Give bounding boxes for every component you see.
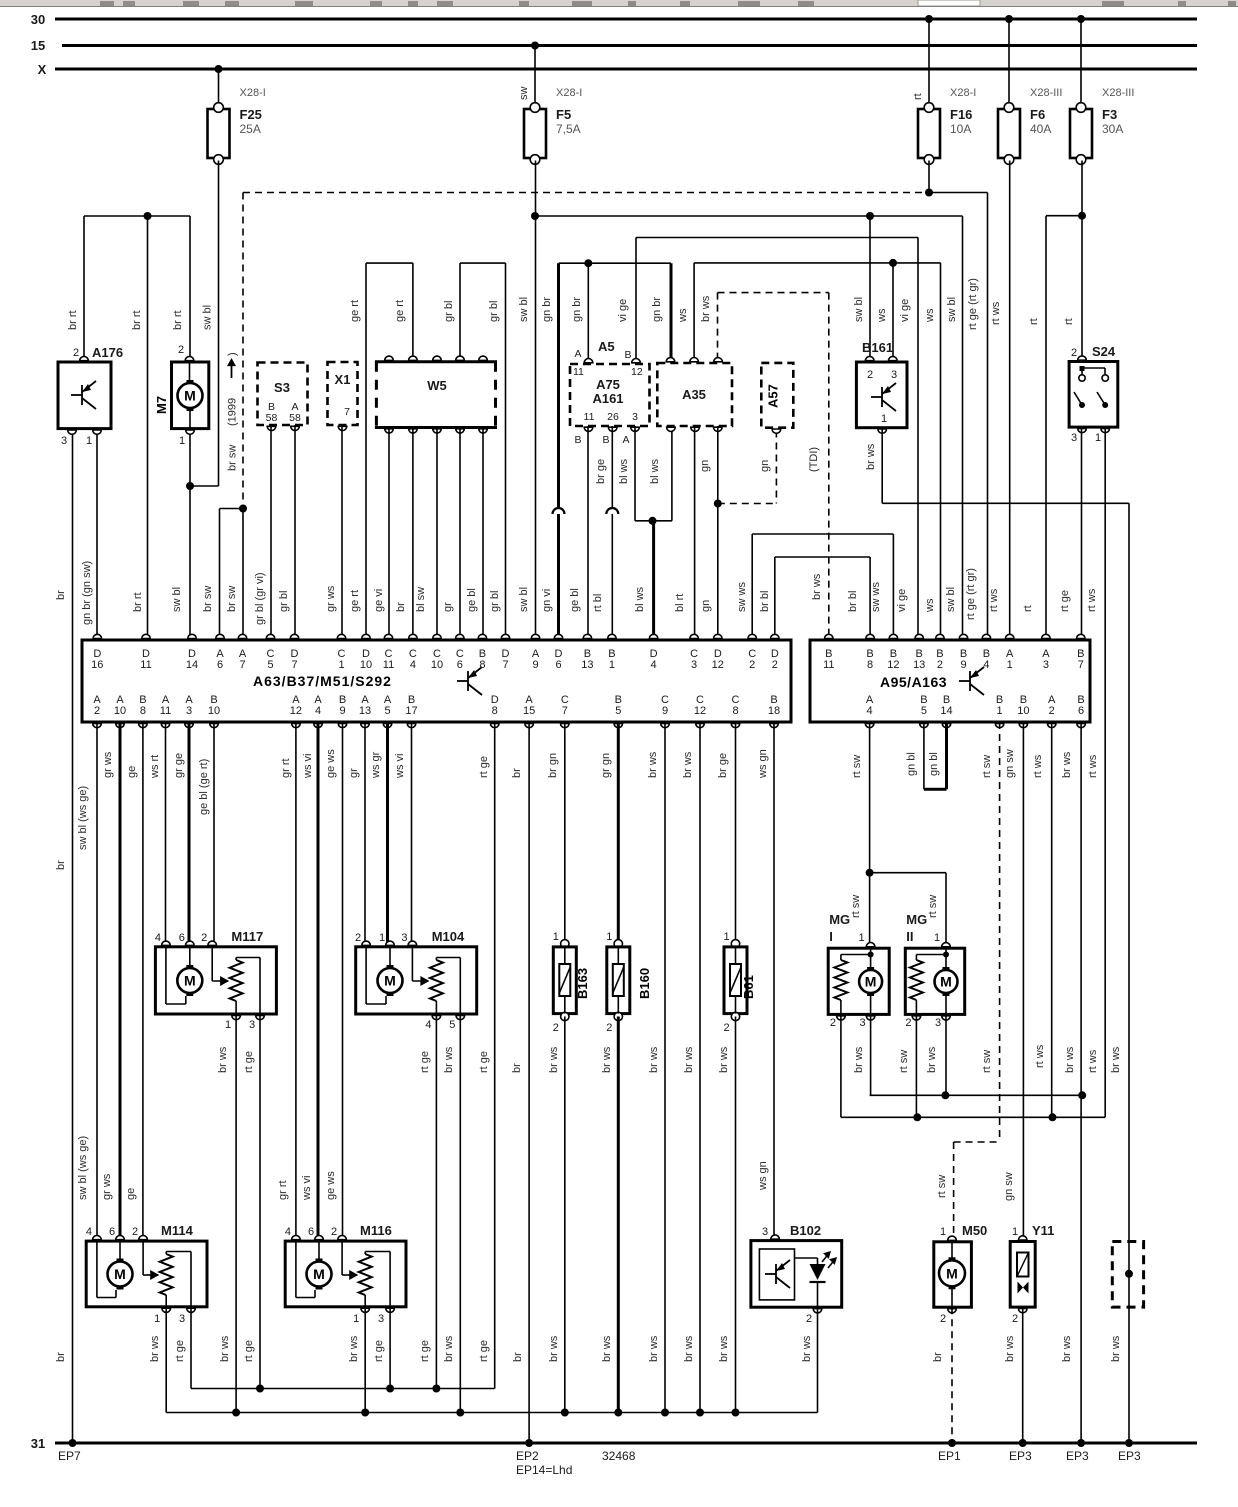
- junction B161 pin2 wire: [866, 212, 874, 220]
- wire B160 down: [617, 1017, 620, 1413]
- junction br ws: [361, 1409, 369, 1417]
- wire F25 down: [218, 161, 220, 487]
- svg-text:A176: A176: [92, 345, 123, 360]
- svg-text:58: 58: [266, 412, 278, 424]
- svg-text:br ws: br ws: [801, 1335, 813, 1362]
- svg-text:br bl: br bl: [847, 591, 859, 612]
- svg-text:rt ge: rt ge: [478, 1340, 490, 1362]
- junction F3: [1078, 212, 1086, 220]
- bus line 15: [62, 44, 1197, 47]
- svg-text:7: 7: [562, 705, 568, 717]
- svg-text:sw bl (ws ge): sw bl (ws ge): [77, 1136, 89, 1200]
- svg-text:6: 6: [457, 659, 463, 671]
- svg-text:rt sw: rt sw: [936, 1175, 948, 1198]
- wire S24 pin1 down: [1104, 427, 1106, 1117]
- sensor B61: [731, 940, 739, 948]
- svg-text:gr rt: gr rt: [277, 1180, 289, 1200]
- wire M116.1 down: [364, 1307, 366, 1413]
- wire C12 down: [699, 722, 701, 1413]
- svg-text:2: 2: [73, 347, 79, 359]
- junction M7 pin1: [186, 482, 194, 490]
- junction D11: [144, 212, 152, 220]
- wire A4R to MG I: [869, 722, 871, 945]
- junction br ws: [232, 1409, 240, 1417]
- svg-text:br rt: br rt: [132, 592, 144, 612]
- svg-text:3: 3: [61, 435, 67, 447]
- svg-text:sw bl: sw bl: [171, 587, 183, 612]
- svg-text:11: 11: [584, 411, 595, 423]
- svg-text:4: 4: [425, 1019, 431, 1031]
- svg-text:12: 12: [631, 366, 643, 378]
- svg-text:3: 3: [378, 1313, 384, 1325]
- svg-text:12: 12: [290, 705, 302, 717]
- svg-text:rt: rt: [912, 93, 924, 100]
- svg-text:EP1: EP1: [938, 1449, 961, 1463]
- svg-text:br: br: [511, 768, 523, 778]
- svg-text:gr bl: gr bl: [489, 591, 501, 612]
- svg-text:M117: M117: [231, 929, 263, 944]
- wire M104.5 down: [459, 1014, 461, 1413]
- svg-text:3: 3: [1043, 659, 1049, 671]
- svg-text:EP2: EP2: [516, 1449, 539, 1463]
- bus br ws sensor ground: [166, 1412, 817, 1414]
- control unit connector A95/A163: [810, 640, 1090, 722]
- svg-text:16: 16: [91, 659, 103, 671]
- svg-text:gn sw: gn sw: [1003, 1172, 1015, 1201]
- dashed wire A57 run: [775, 431, 777, 504]
- wire from bus to fuse F25: [218, 69, 220, 107]
- svg-text:gr bl: gr bl: [488, 301, 500, 322]
- svg-text:gr ws: gr ws: [101, 1173, 113, 1200]
- junction rt ge M104.4: [432, 1385, 440, 1393]
- svg-text:M50: M50: [962, 1223, 987, 1238]
- svg-text:A75: A75: [596, 377, 620, 392]
- svg-text:M114: M114: [161, 1223, 194, 1238]
- svg-text:X28-III: X28-III: [1030, 87, 1062, 99]
- svg-text:M: M: [313, 1266, 325, 1282]
- wire C8 to B61: [735, 722, 737, 944]
- svg-text:br: br: [395, 602, 407, 612]
- svg-text:3: 3: [1071, 432, 1077, 444]
- svg-text:A161: A161: [592, 391, 623, 406]
- svg-text:): ): [227, 352, 239, 356]
- svg-text:ws: ws: [924, 308, 936, 323]
- bus line 30: [55, 18, 1197, 20]
- wire B5 to B160 bold: [617, 722, 620, 944]
- svg-text:2: 2: [830, 1017, 836, 1029]
- wire D14 down: [189, 486, 191, 640]
- svg-text:br ws: br ws: [683, 1046, 695, 1073]
- svg-text:br ws: br ws: [718, 1046, 730, 1073]
- svg-text:br sw: br sw: [226, 586, 238, 612]
- junction inside dashed box: [1125, 1270, 1133, 1278]
- svg-text:11: 11: [160, 705, 171, 717]
- junction line A MGII3: [941, 1091, 949, 1099]
- fuse F25: [208, 109, 230, 158]
- svg-text:br ge: br ge: [595, 459, 607, 484]
- svg-text:ge bl (ge rt): ge bl (ge rt): [198, 759, 210, 815]
- control unit connector A63/B37/M51/S292: [82, 640, 791, 722]
- svg-text:rt: rt: [1028, 318, 1040, 325]
- svg-text:ge: ge: [125, 1188, 137, 1200]
- svg-text:10: 10: [114, 705, 126, 717]
- svg-text:25A: 25A: [240, 122, 261, 136]
- wire A4 to M116.6 bold: [317, 722, 320, 1238]
- arrow 1999 up: [231, 364, 233, 378]
- svg-text:rt ge: rt ge: [419, 1340, 431, 1362]
- svg-text:br ws: br ws: [219, 1335, 231, 1362]
- svg-text:ge bl: ge bl: [569, 588, 581, 612]
- svg-text:ws gn: ws gn: [757, 749, 769, 779]
- junction br ws: [732, 1409, 740, 1417]
- svg-text:B: B: [624, 349, 631, 361]
- svg-text:3: 3: [186, 705, 192, 717]
- svg-text:S3: S3: [274, 380, 290, 395]
- svg-text:B163: B163: [575, 968, 590, 999]
- svg-text:Y11: Y11: [1032, 1223, 1054, 1238]
- svg-text:gn sw: gn sw: [1004, 749, 1016, 778]
- svg-text:4: 4: [867, 705, 873, 717]
- connector S3: [258, 363, 308, 426]
- svg-text:sw bl: sw bl: [945, 587, 957, 612]
- svg-text:ge ws: ge ws: [325, 1171, 337, 1200]
- svg-text:2: 2: [606, 1022, 612, 1034]
- wire to B161 pin2: [869, 216, 871, 359]
- svg-text:B: B: [602, 434, 609, 446]
- junction D4: [649, 517, 657, 525]
- wire F5/A9 down: [535, 161, 537, 641]
- wire M116.3 down: [389, 1307, 391, 1389]
- svg-text:br ws: br ws: [601, 1046, 613, 1073]
- svg-text:gr bl (gr vi): gr bl (gr vi): [254, 572, 266, 625]
- svg-text:A: A: [574, 348, 581, 360]
- svg-text:6: 6: [1078, 705, 1084, 717]
- svg-text:1: 1: [1012, 1226, 1018, 1238]
- splice hook on D6 wire: [553, 508, 565, 514]
- svg-text:rt ws: rt ws: [1087, 1049, 1099, 1073]
- actuator motor M116: [285, 1241, 406, 1307]
- svg-text:br ws: br ws: [700, 295, 712, 322]
- wire B9 to M116.2: [342, 722, 344, 1238]
- svg-text:br: br: [932, 1352, 944, 1362]
- component M7 motor: [172, 362, 209, 429]
- svg-text:26: 26: [607, 411, 619, 423]
- svg-text:gr ws: gr ws: [102, 751, 114, 778]
- svg-text:br sw: br sw: [227, 445, 239, 471]
- svg-text:ws vi: ws vi: [394, 754, 406, 779]
- svg-text:M: M: [184, 973, 196, 989]
- svg-text:rt ws: rt ws: [1086, 588, 1098, 612]
- svg-text:10: 10: [1017, 705, 1029, 717]
- svg-text:gn: gn: [759, 460, 771, 472]
- svg-text:4: 4: [983, 659, 989, 671]
- wire W5 bracket right: [460, 262, 506, 264]
- svg-text:2: 2: [1071, 347, 1077, 359]
- svg-text:gr bl: gr bl: [278, 591, 290, 612]
- svg-text:sw bl: sw bl: [946, 297, 958, 322]
- svg-text:br ws: br ws: [648, 1046, 660, 1073]
- wire B6 to EP3: [1080, 722, 1082, 1443]
- svg-text:1: 1: [553, 931, 559, 943]
- junction line A B6: [1078, 1091, 1086, 1099]
- wire MG I.2 down: [840, 1014, 842, 1117]
- svg-text:2: 2: [1012, 1313, 1018, 1325]
- wire B17 to M104.3: [411, 722, 413, 945]
- wire A35 pin1b down: [671, 429, 673, 521]
- terminal EP3 a: [1019, 1439, 1027, 1447]
- svg-text:10: 10: [208, 705, 220, 717]
- wire A15 to EP2: [528, 722, 530, 1443]
- junction br ws: [561, 1409, 569, 1417]
- svg-text:bl rt: bl rt: [674, 594, 686, 612]
- svg-text:A5: A5: [598, 339, 615, 354]
- svg-text:9: 9: [532, 659, 538, 671]
- svg-text:M: M: [184, 388, 196, 404]
- wire M7 pin1: [189, 430, 191, 486]
- svg-text:EP3: EP3: [1009, 1449, 1032, 1463]
- svg-text:4: 4: [315, 705, 321, 717]
- actuator motor M117: [155, 947, 276, 1014]
- connector X1: [328, 362, 358, 425]
- svg-text:rt ge: rt ge: [174, 1340, 186, 1362]
- svg-text:br ws: br ws: [683, 1335, 695, 1362]
- dashed wire br sw 1999 horizontal: [243, 192, 929, 194]
- svg-text:gn: gn: [700, 600, 712, 612]
- junction br sw to A6/A7: [239, 505, 247, 513]
- svg-text:gn br: gn br: [651, 297, 663, 322]
- wire C7 to B163: [564, 722, 566, 944]
- M117 internals: [189, 947, 191, 965]
- svg-text:EP14=Lhd: EP14=Lhd: [516, 1463, 572, 1477]
- svg-text:br ge: br ge: [717, 753, 729, 778]
- svg-text:3: 3: [632, 411, 638, 423]
- svg-text:3: 3: [401, 932, 407, 944]
- dashed wire A35 pin3 up: [717, 293, 719, 361]
- svg-text:br ws: br ws: [811, 573, 823, 600]
- svg-text:2: 2: [806, 1313, 812, 1325]
- svg-text:7: 7: [1078, 659, 1084, 671]
- svg-text:gr: gr: [442, 602, 454, 612]
- svg-text:br ws: br ws: [926, 1046, 938, 1073]
- splice hook on B1 wire: [606, 508, 618, 514]
- svg-text:10A: 10A: [950, 122, 971, 136]
- wire A75 p3 to bar: [634, 426, 636, 521]
- svg-text:br rt: br rt: [131, 310, 143, 330]
- svg-text:1: 1: [859, 932, 865, 944]
- svg-text:M: M: [114, 1266, 126, 1282]
- junction A75 pin11: [584, 259, 592, 267]
- component A75/A161: [570, 364, 650, 426]
- wire F16 to B4 corner: [929, 192, 988, 194]
- terminal EP1: [948, 1439, 956, 1447]
- svg-text:M116: M116: [360, 1223, 392, 1238]
- wire net A35-2/B161-3/B2 horizontal: [694, 262, 940, 264]
- svg-text:4: 4: [651, 659, 657, 671]
- svg-text:br ws: br ws: [1110, 1335, 1122, 1362]
- svg-text:30: 30: [31, 12, 45, 27]
- wire F3 to S24 pin2: [1081, 161, 1083, 360]
- svg-text:7: 7: [502, 659, 508, 671]
- svg-text:ws rt: ws rt: [149, 755, 161, 779]
- svg-text:br ws: br ws: [601, 1335, 613, 1362]
- svg-text:2: 2: [867, 369, 873, 381]
- svg-text:7: 7: [239, 659, 245, 671]
- svg-text:sw bl: sw bl: [518, 587, 530, 612]
- wire A12 to M116.4: [295, 722, 297, 1238]
- svg-text:2: 2: [201, 932, 207, 944]
- svg-text:11: 11: [573, 366, 584, 378]
- svg-text:br ws: br ws: [217, 1046, 229, 1073]
- svg-text:13: 13: [913, 659, 925, 671]
- svg-text:1: 1: [379, 932, 385, 944]
- bar to D4: [635, 520, 672, 522]
- wire B2 down: [940, 263, 942, 640]
- wire D4 down bold: [652, 521, 655, 640]
- svg-text:4: 4: [86, 1226, 92, 1238]
- svg-text:2: 2: [772, 659, 778, 671]
- svg-text:br ws: br ws: [648, 1335, 660, 1362]
- component W5: [376, 362, 495, 428]
- junction F5: [531, 212, 539, 220]
- wire A13 to M104.2: [364, 722, 366, 945]
- svg-text:br gn: br gn: [547, 753, 559, 778]
- svg-text:rt ge: rt ge: [243, 1051, 255, 1073]
- wire A75 p11b to B13: [587, 426, 589, 640]
- svg-text:A95/A163: A95/A163: [880, 674, 947, 690]
- svg-text:B160: B160: [637, 968, 652, 999]
- svg-text:1: 1: [86, 435, 92, 447]
- svg-text:M: M: [946, 1265, 958, 1281]
- svg-text:6: 6: [109, 1226, 115, 1238]
- svg-text:5: 5: [615, 705, 621, 717]
- bus line 31: [55, 1442, 1197, 1445]
- svg-text:A57: A57: [766, 384, 781, 408]
- wire A75 pin12 to B13 horizontal: [636, 237, 918, 239]
- svg-text:2: 2: [553, 1022, 559, 1034]
- wire S3 B to C5: [270, 425, 272, 640]
- svg-text:X28-I: X28-I: [950, 87, 976, 99]
- wire B102.2 down: [817, 1307, 819, 1412]
- svg-text:sw bl: sw bl: [518, 297, 530, 322]
- svg-text:ws: ws: [924, 598, 936, 613]
- svg-text:M: M: [940, 974, 952, 990]
- svg-text:MG: MG: [829, 912, 850, 927]
- svg-text:vi ge: vi ge: [899, 299, 911, 322]
- fuse F3: [1070, 109, 1092, 158]
- svg-text:X: X: [38, 62, 47, 77]
- svg-text:I: I: [829, 929, 833, 944]
- svg-text:rt ge: rt ge: [478, 756, 490, 778]
- svg-text:14: 14: [186, 659, 198, 671]
- svg-text:3: 3: [860, 1017, 866, 1029]
- wire from bus to fuse F6: [1008, 19, 1010, 107]
- wire C2 to B12: [751, 534, 753, 640]
- svg-text:ws: ws: [677, 308, 689, 323]
- svg-text:M7: M7: [154, 396, 169, 414]
- svg-text:1: 1: [338, 659, 344, 671]
- svg-text:8: 8: [140, 705, 146, 717]
- svg-text:rt sw: rt sw: [927, 895, 939, 918]
- svg-text:3: 3: [891, 369, 897, 381]
- svg-text:1: 1: [940, 1226, 946, 1238]
- svg-text:br: br: [55, 590, 67, 600]
- svg-text:br rt: br rt: [172, 310, 184, 330]
- wire M117.3 down: [259, 1014, 261, 1389]
- svg-text:ge bl: ge bl: [466, 588, 478, 612]
- wire C9 down: [664, 722, 666, 1413]
- svg-text:58: 58: [289, 412, 301, 424]
- svg-text:3: 3: [249, 1019, 255, 1031]
- svg-text:rt ws: rt ws: [988, 588, 1000, 612]
- B102 photodiode: [795, 1257, 818, 1259]
- svg-text:br rt: br rt: [67, 310, 79, 330]
- svg-text:ge vi: ge vi: [373, 589, 385, 612]
- svg-text:ws vi: ws vi: [302, 754, 314, 779]
- svg-text:2: 2: [132, 1226, 138, 1238]
- svg-text:MG: MG: [906, 912, 927, 927]
- junction br ws: [614, 1409, 622, 1417]
- svg-text:7,5A: 7,5A: [556, 122, 581, 136]
- svg-text:3: 3: [691, 659, 697, 671]
- line B collector: [841, 1116, 1105, 1118]
- svg-text:15: 15: [31, 38, 45, 53]
- svg-text:ws: ws: [876, 308, 888, 323]
- svg-text:vi ge: vi ge: [617, 299, 629, 322]
- wire M117.1 down: [235, 1014, 237, 1413]
- svg-text:B102: B102: [790, 1223, 821, 1238]
- svg-text:br ws: br ws: [1064, 1046, 1076, 1073]
- svg-text:sw bl (ws ge): sw bl (ws ge): [77, 786, 89, 850]
- svg-text:rt ge (rt gr): rt ge (rt gr): [965, 568, 977, 620]
- wire S24 pin3 to B7: [1081, 427, 1083, 640]
- svg-text:br ws: br ws: [1061, 1335, 1073, 1362]
- dashed wire M50 to EP1: [951, 1307, 953, 1443]
- svg-text:2: 2: [1049, 705, 1055, 717]
- wire M114.3 down: [190, 1307, 192, 1389]
- svg-text:rt ge: rt ge: [243, 1340, 255, 1362]
- svg-text:br ws: br ws: [548, 1046, 560, 1073]
- svg-text:ge rt: ge rt: [394, 300, 406, 322]
- wire A176 pin1 to D16: [96, 430, 98, 640]
- component A176: [58, 362, 111, 429]
- svg-text:8: 8: [479, 659, 485, 671]
- svg-text:31: 31: [31, 1436, 45, 1451]
- svg-text:4: 4: [155, 932, 161, 944]
- svg-text:8: 8: [732, 705, 738, 717]
- svg-text:X28-III: X28-III: [1102, 87, 1134, 99]
- svg-text:gr gn: gr gn: [600, 753, 612, 778]
- svg-text:M104: M104: [432, 929, 465, 944]
- svg-text:gn: gn: [699, 460, 711, 472]
- svg-text:br sw: br sw: [202, 586, 214, 612]
- dashed wire B11 down: [828, 293, 830, 640]
- dashed wire B1 to M50: [999, 722, 1001, 1142]
- wire B61 down: [735, 1017, 737, 1413]
- svg-text:(1999: (1999: [227, 398, 239, 426]
- wire MG II.3 down: [945, 1014, 947, 1095]
- svg-text:bl ws: bl ws: [618, 458, 630, 484]
- fuse F5: [524, 109, 546, 158]
- line A rt/ws collector: [870, 1094, 1083, 1096]
- wire F25 jog to D14: [190, 485, 219, 487]
- wire from bus to fuse F3: [1080, 19, 1082, 107]
- junction MG: [866, 869, 874, 877]
- wire A35 pin1 down bold: [670, 263, 673, 361]
- svg-text:ge: ge: [126, 766, 138, 778]
- wire B161 net to right: [882, 502, 1129, 504]
- wire D11 down: [147, 216, 149, 640]
- svg-text:br ws: br ws: [1004, 1335, 1016, 1362]
